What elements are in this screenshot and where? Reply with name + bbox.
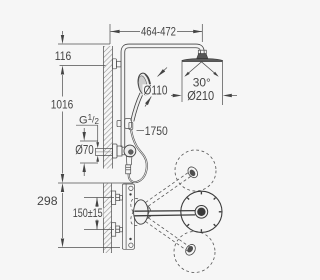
svg-text:1750: 1750 [145, 124, 168, 138]
svg-text:Ø70: Ø70 [75, 142, 94, 157]
svg-text:150±15: 150±15 [73, 206, 103, 220]
svg-text:464-472: 464-472 [141, 26, 176, 39]
svg-text:298: 298 [37, 194, 58, 208]
svg-text:Ø210: Ø210 [187, 88, 214, 103]
svg-text:116: 116 [55, 49, 72, 63]
svg-text:Ø110: Ø110 [144, 82, 168, 97]
svg-text:1016: 1016 [51, 98, 74, 112]
